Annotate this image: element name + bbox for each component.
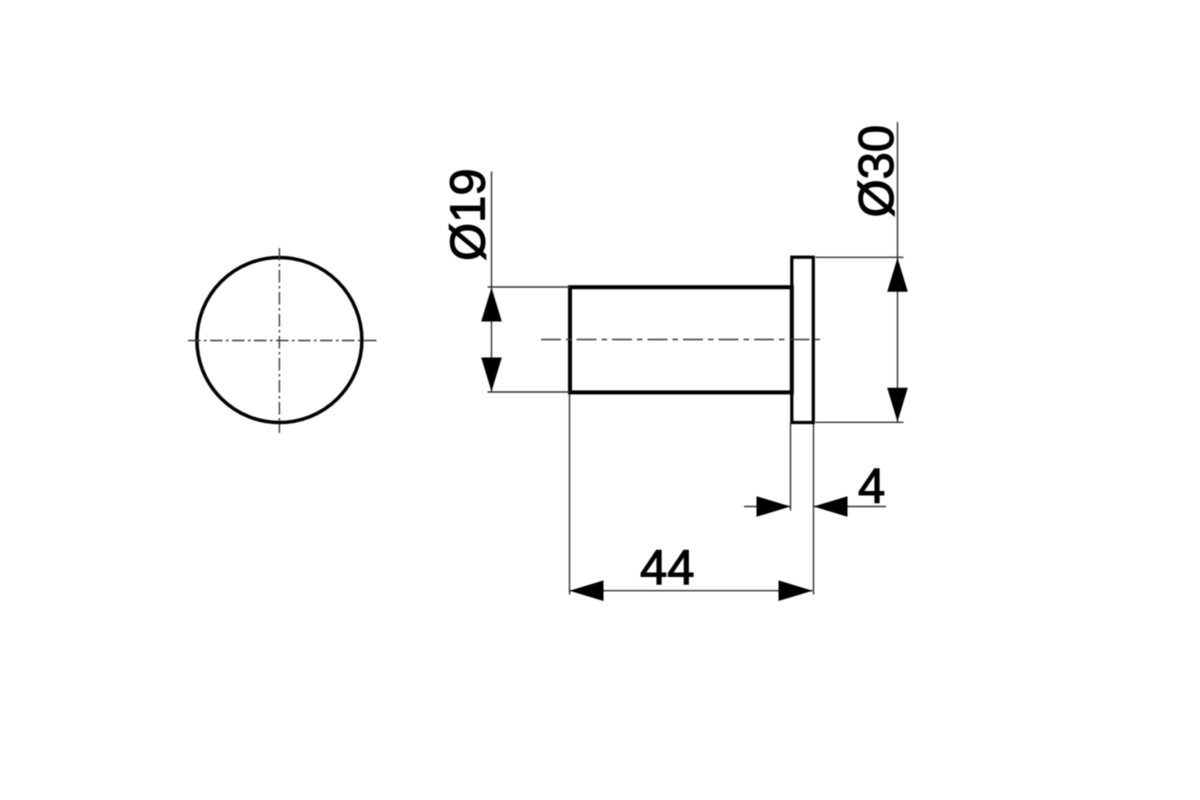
svg-text:44: 44	[640, 541, 695, 595]
svg-text:Ø30: Ø30	[850, 125, 904, 218]
svg-text:4: 4	[858, 459, 885, 513]
svg-text:Ø19: Ø19	[442, 168, 496, 261]
